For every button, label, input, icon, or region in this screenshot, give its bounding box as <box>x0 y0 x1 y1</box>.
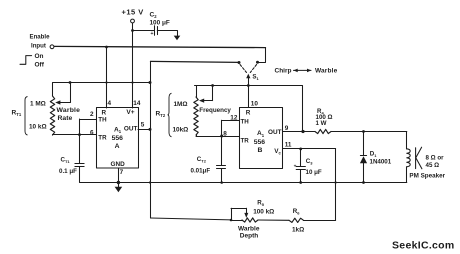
svg-text:7: 7 <box>120 169 124 176</box>
svg-text:556: 556 <box>254 139 266 146</box>
svg-text:Enable: Enable <box>30 34 51 41</box>
svg-text:8: 8 <box>223 130 227 137</box>
svg-text:10kΩ: 10kΩ <box>173 126 189 133</box>
svg-text:Warble: Warble <box>57 107 81 114</box>
svg-text:+: + <box>151 31 154 37</box>
svg-text:CT2: CT2 <box>197 156 207 164</box>
svg-text:R: R <box>246 110 251 117</box>
svg-text:OUT: OUT <box>124 126 138 133</box>
svg-text:45 Ω: 45 Ω <box>426 162 440 169</box>
svg-text:Frequency: Frequency <box>199 107 231 114</box>
svg-text:Depth: Depth <box>240 233 258 240</box>
svg-text:TR: TR <box>98 134 107 141</box>
svg-text:+: + <box>294 164 297 169</box>
svg-text:9: 9 <box>285 125 289 132</box>
svg-text:6: 6 <box>90 129 94 136</box>
svg-text:C2: C2 <box>150 12 158 20</box>
svg-text:On: On <box>35 53 44 60</box>
svg-text:R5: R5 <box>257 200 264 208</box>
svg-text:556: 556 <box>112 135 124 142</box>
svg-text:A1: A1 <box>114 127 122 135</box>
svg-text:OUT: OUT <box>268 129 282 136</box>
svg-text:Warble: Warble <box>238 225 260 232</box>
svg-text:Chirp: Chirp <box>275 67 292 74</box>
svg-text:CT1: CT1 <box>61 157 71 165</box>
svg-text:SeekIC.com: SeekIC.com <box>392 240 455 252</box>
svg-text:100 μF: 100 μF <box>150 20 170 27</box>
svg-text:TR: TR <box>241 137 250 144</box>
svg-text:TH: TH <box>98 117 107 124</box>
svg-text:100 kΩ: 100 kΩ <box>253 208 274 215</box>
svg-text:R6: R6 <box>293 208 300 216</box>
svg-text:8 Ω or: 8 Ω or <box>426 154 445 161</box>
svg-text:10 kΩ: 10 kΩ <box>29 124 47 131</box>
svg-text:TH: TH <box>241 119 250 126</box>
svg-text:A1: A1 <box>257 130 265 138</box>
svg-text:Off: Off <box>35 62 45 69</box>
svg-text:12: 12 <box>230 114 238 121</box>
svg-text:RT1: RT1 <box>12 110 22 118</box>
svg-text:A: A <box>115 143 120 150</box>
svg-text:0.1 μF: 0.1 μF <box>59 168 77 175</box>
svg-text:D1: D1 <box>370 151 377 159</box>
svg-text:5: 5 <box>141 122 145 129</box>
svg-text:+15 V: +15 V <box>122 8 144 17</box>
svg-text:1 W: 1 W <box>316 120 327 127</box>
svg-text:1kΩ: 1kΩ <box>292 227 304 234</box>
svg-text:GND: GND <box>111 161 126 168</box>
svg-text:1MΩ: 1MΩ <box>174 101 188 108</box>
svg-text:0.01μF: 0.01μF <box>191 168 211 175</box>
svg-text:Rate: Rate <box>58 115 73 122</box>
svg-text:1N4001: 1N4001 <box>370 158 392 165</box>
svg-text:C3: C3 <box>306 158 313 166</box>
svg-text:R: R <box>102 109 107 116</box>
svg-text:11: 11 <box>285 142 292 149</box>
svg-text:10 μF: 10 μF <box>306 169 322 176</box>
svg-text:B: B <box>258 147 263 154</box>
svg-text:4: 4 <box>108 100 112 107</box>
svg-text:Warble: Warble <box>315 68 338 75</box>
svg-text:2: 2 <box>90 111 94 118</box>
svg-text:Input: Input <box>31 43 46 50</box>
svg-text:1 MΩ: 1 MΩ <box>30 101 46 108</box>
svg-text:14: 14 <box>133 100 141 107</box>
svg-text:V+: V+ <box>126 109 134 116</box>
svg-text:RT2: RT2 <box>156 111 166 119</box>
svg-text:10: 10 <box>251 101 259 108</box>
svg-text:S1: S1 <box>252 73 259 81</box>
svg-text:PM Speaker: PM Speaker <box>409 173 445 180</box>
svg-text:Vc: Vc <box>274 148 281 156</box>
